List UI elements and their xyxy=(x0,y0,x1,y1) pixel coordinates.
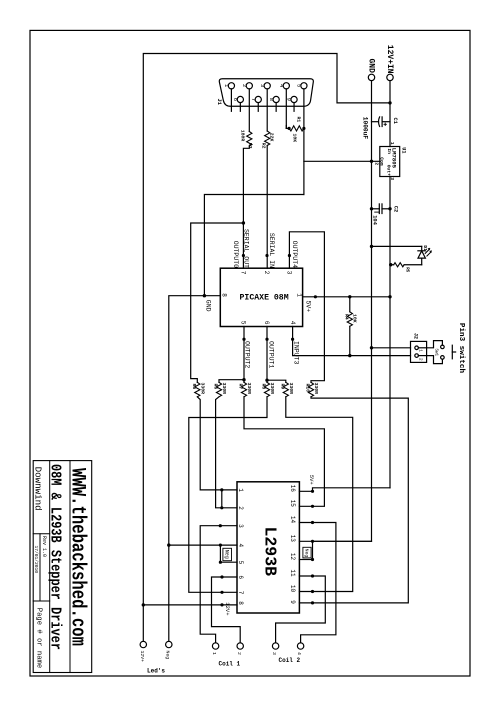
svg-text:5V+: 5V+ xyxy=(308,475,315,485)
resistor R3 180R (DB9 pin2 to serial out) xyxy=(243,132,252,269)
svg-text:9: 9 xyxy=(286,98,293,101)
svg-text:4: 4 xyxy=(289,321,296,325)
node L293B pin2 stub dot xyxy=(220,506,223,509)
J1 pin 2 xyxy=(246,83,252,132)
svg-text:8: 8 xyxy=(220,293,227,297)
wire R7 bottom to L293B pin15 xyxy=(244,397,324,507)
svg-text:R7: R7 xyxy=(238,384,244,390)
resistor R2 22K (DB9 pin3 to serial in) xyxy=(265,131,270,268)
svg-text:8: 8 xyxy=(237,601,244,605)
J1 pin 9 xyxy=(291,96,297,111)
node L293B pin10 stub dot xyxy=(311,590,314,593)
svg-text:Out+: Out+ xyxy=(386,165,392,176)
svg-text:5V+: 5V+ xyxy=(305,301,312,313)
svg-text:C1: C1 xyxy=(392,118,398,124)
terminal Coil1 pin1 xyxy=(212,643,218,649)
svg-text:2: 2 xyxy=(263,271,270,275)
svg-text:J1: J1 xyxy=(216,99,222,105)
wire SERIAL OUT branch to R5 xyxy=(191,223,244,382)
node SERIAL OUT branch junction xyxy=(242,221,245,224)
svg-text:R1: R1 xyxy=(295,117,301,123)
LED D1 xyxy=(372,246,432,264)
IC L293B body xyxy=(237,482,299,613)
resistor R10 330R xyxy=(308,382,313,397)
node L293B pin9 stub dot xyxy=(311,601,314,604)
terminal Neg (Led's) xyxy=(166,641,172,647)
svg-text:8: 8 xyxy=(268,98,275,101)
svg-text:R8: R8 xyxy=(261,384,267,390)
svg-text:13: 13 xyxy=(289,535,296,543)
node GND at U1 Com xyxy=(370,160,373,163)
svg-text:L293B: L293B xyxy=(261,527,280,577)
J1 pin 1 xyxy=(228,83,234,112)
svg-text:Neg: Neg xyxy=(223,550,229,559)
wire L293B pin12 stub xyxy=(299,559,312,561)
node pin5 stub dot xyxy=(242,338,245,341)
svg-text:9: 9 xyxy=(289,600,296,604)
wire R10 bottom to L293B pin9 xyxy=(299,397,408,603)
node 5V+ at 10K top xyxy=(348,295,351,298)
node 12V branch to L293B pin8 xyxy=(142,603,145,606)
svg-text:12V+IN: 12V+IN xyxy=(385,45,394,74)
wire L293B pin4 to Neg rail xyxy=(169,544,237,546)
node L293B pin3 stub dot xyxy=(219,524,222,527)
svg-text:2: 2 xyxy=(237,506,244,510)
svg-text:17/01/2010: 17/01/2010 xyxy=(33,546,39,574)
J1 pin 7 xyxy=(255,96,261,111)
node L293B pin1 stub dot xyxy=(220,488,223,491)
wire 12V+ net: terminal down, left, up, across top, down left side to 12V+ terminal xyxy=(143,54,390,642)
wire R8 bottom to L293B pin7 xyxy=(189,397,267,593)
svg-text:GND: GND xyxy=(367,59,376,74)
svg-text:1: 1 xyxy=(211,652,217,655)
wire PICAXE pin8 stub xyxy=(204,295,220,297)
wire J2 pin1 to Sw1 upper contact xyxy=(427,341,443,348)
label Neg box (left) xyxy=(223,548,232,560)
node L293B pin12 stub dot xyxy=(311,558,314,561)
svg-text:330R: 330R xyxy=(246,383,252,395)
wire OUTPUT1 net pin6 down to R8 xyxy=(266,327,268,383)
svg-text:1: 1 xyxy=(237,488,244,492)
svg-text:GND: GND xyxy=(205,300,212,312)
node Neg rail at L293B pin4 branch xyxy=(167,543,170,546)
svg-text:3: 3 xyxy=(389,177,395,180)
svg-text:12: 12 xyxy=(289,553,296,561)
wire U1 Com to GND and DB9 pin5 net xyxy=(304,160,380,162)
svg-text:330R: 330R xyxy=(313,383,319,395)
svg-text:330R: 330R xyxy=(200,383,206,395)
wire GND from DB9 pin5 down-left to PICAXE pin8 xyxy=(204,195,304,296)
svg-text:22K: 22K xyxy=(269,133,275,142)
svg-text:104: 104 xyxy=(371,215,377,225)
svg-text:11: 11 xyxy=(289,569,296,577)
svg-text:5: 5 xyxy=(237,561,244,565)
svg-text:3: 3 xyxy=(271,652,277,655)
title block outline xyxy=(33,461,91,673)
svg-text:14: 14 xyxy=(289,516,296,524)
resistor R6 330R xyxy=(216,382,221,397)
node INPUT3 at 10K bottom xyxy=(348,354,351,357)
svg-text:6: 6 xyxy=(263,321,270,325)
switch Sw1 xyxy=(441,345,456,359)
node GND at PICAXE pin8 xyxy=(203,294,206,297)
svg-text:J2: J2 xyxy=(413,333,419,339)
svg-text:Coil 1: Coil 1 xyxy=(219,661,241,668)
node L293B pin16 stub dot xyxy=(311,490,314,493)
connector J1 DB9 shell xyxy=(219,79,313,107)
resistor R9 330R xyxy=(283,382,288,397)
wire R6 bottom to L293B pin2 xyxy=(216,397,237,508)
svg-text:D1: D1 xyxy=(422,245,428,251)
label Neg box (right) xyxy=(303,547,311,558)
wire OUTPUT2 branch to R6 xyxy=(219,380,244,383)
resistor R5 330R xyxy=(195,382,200,397)
svg-text:Rev 1.0: Rev 1.0 xyxy=(41,536,47,557)
svg-text:R2: R2 xyxy=(261,143,267,149)
node pin3 stub dot xyxy=(288,254,291,257)
wire OUTPUT1 branch to R9 xyxy=(267,380,286,382)
title block divider rev box bottom xyxy=(33,600,50,602)
svg-text:R4: R4 xyxy=(343,314,349,320)
wire R9 bottom to L293B pin10 xyxy=(286,397,353,592)
title block divider rev box top xyxy=(33,533,50,535)
svg-text:4: 4 xyxy=(296,652,302,655)
svg-text:R6: R6 xyxy=(213,384,219,390)
svg-text:1: 1 xyxy=(296,293,303,297)
svg-text:3: 3 xyxy=(259,84,266,87)
svg-text:U1: U1 xyxy=(401,147,407,153)
node L293B pin11 stub dot xyxy=(311,574,314,577)
resistor R4 10K (pin3 pull) xyxy=(347,297,352,356)
svg-text:3: 3 xyxy=(237,524,244,528)
svg-text:SERIAL OUT: SERIAL OUT xyxy=(243,229,250,268)
wire J2 pin1 to GND xyxy=(372,347,411,349)
svg-text:7: 7 xyxy=(250,98,257,101)
svg-text:1: 1 xyxy=(389,142,395,145)
node R1 right at pin5 line xyxy=(302,127,305,130)
terminal Coil1 pin2 xyxy=(237,643,243,649)
terminal 12V+IN xyxy=(387,74,393,103)
svg-text:330R: 330R xyxy=(221,383,227,395)
svg-text:7: 7 xyxy=(237,591,244,595)
svg-text:SERIAL IN: SERIAL IN xyxy=(268,233,275,268)
svg-text:INPUT3: INPUT3 xyxy=(293,341,300,365)
J1 pin 6 xyxy=(237,96,243,111)
node 12V junction at C1 branch xyxy=(388,101,391,104)
svg-text:2: 2 xyxy=(374,162,380,165)
svg-text:330R: 330R xyxy=(269,383,275,395)
svg-text:Downwind: Downwind xyxy=(33,467,44,511)
svg-text:1: 1 xyxy=(417,349,423,352)
svg-text:10K: 10K xyxy=(292,134,298,143)
svg-text:2: 2 xyxy=(241,84,248,87)
node GND at C2 xyxy=(370,207,373,210)
resistor R11 (LED series) xyxy=(391,263,422,267)
wire L293B pin6 to Coil1 terminal 2 xyxy=(212,577,241,643)
svg-text:Sw1: Sw1 xyxy=(433,349,437,357)
node L293B pin8 stub dot xyxy=(220,603,223,606)
svg-text:12V+: 12V+ xyxy=(139,651,145,663)
node L293B pin14 stub dot xyxy=(311,521,314,524)
node L293B pin6 stub dot xyxy=(220,575,223,578)
wire 5V+ from PICAXE pin1 to +5V rail xyxy=(303,296,390,298)
wire OUTPUT4 net: pin3 up, right, down to R10 xyxy=(289,232,324,382)
J1 pin 8 xyxy=(273,96,279,111)
connector J2 xyxy=(411,341,427,362)
wire Neg bracket pins 4-5 xyxy=(219,545,221,562)
svg-text:OUTPUT4: OUTPUT4 xyxy=(291,241,298,268)
svg-text:1000uF: 1000uF xyxy=(361,117,368,140)
wire INPUT3 net pin4 down right to J2 pin2 xyxy=(293,327,411,356)
terminal Coil2 pin4 xyxy=(297,643,303,649)
svg-text:R5: R5 xyxy=(405,267,409,273)
terminal 12V+ (Led's) xyxy=(140,641,146,647)
resistor R7 330R xyxy=(241,382,246,397)
node pin4 stub dot xyxy=(291,338,294,341)
svg-text:08M & L293B Stepper Driver: 08M & L293B Stepper Driver xyxy=(47,464,64,650)
J1 pin 3 xyxy=(264,83,270,131)
svg-text:Neg: Neg xyxy=(303,549,309,558)
wire 12V to C1 and U1 In xyxy=(389,103,391,147)
node L293B pin7 stub dot xyxy=(220,591,223,594)
wire J2 pin2 to Sw1 lower contact xyxy=(427,356,443,364)
wire L293B pin13 stub to GND xyxy=(299,540,371,542)
node GND at LED branch xyxy=(370,245,373,248)
svg-text:15: 15 xyxy=(289,500,296,508)
regulator U1 LM7805 xyxy=(380,147,400,488)
svg-text:C2: C2 xyxy=(393,206,399,212)
node GND at J2 pin1 branch xyxy=(370,346,373,349)
title block divider col 08M xyxy=(49,461,51,673)
node L293B pin4 stub dot xyxy=(219,544,222,547)
node pin2 stub dot xyxy=(265,254,268,257)
wire L293B pin5 stub xyxy=(220,561,237,563)
node R11 at +5V rail xyxy=(389,263,392,266)
svg-text:2: 2 xyxy=(417,358,423,361)
capacitor C1 xyxy=(372,117,391,127)
node R1 left xyxy=(288,127,291,130)
node 5V+ at +5V rail xyxy=(388,295,391,298)
wire OUTPUT2 net pin5 down to R7 xyxy=(243,327,245,383)
node pin7 stub dot xyxy=(242,254,245,257)
J1 pin 5 xyxy=(301,83,307,195)
svg-text:180R: 180R xyxy=(240,130,246,142)
svg-text:12V+: 12V+ xyxy=(224,602,231,615)
svg-text:R5: R5 xyxy=(191,384,197,390)
terminal GND xyxy=(368,74,374,161)
IC PICAXE 08M body xyxy=(220,268,302,326)
node pin1 stub dot xyxy=(314,295,317,298)
node C2 at +5V rail xyxy=(388,207,391,210)
wire L293B pin11 to Coil2 terminal 3 xyxy=(276,576,326,643)
svg-text:R3: R3 xyxy=(247,143,253,149)
node L293B pin5 stub dot xyxy=(219,561,222,564)
capacitor C2 xyxy=(372,204,391,214)
svg-text:In: In xyxy=(386,148,392,154)
resistor R8 330R xyxy=(264,382,269,397)
title block divider rev/date xyxy=(39,534,41,601)
wire jog pin1 to pin2 xyxy=(221,490,223,508)
wire 12V branch to L293B pin 8 xyxy=(143,604,237,606)
svg-text:Coil 2: Coil 2 xyxy=(279,657,301,664)
svg-text:6: 6 xyxy=(237,575,244,579)
title block divider col WWW xyxy=(69,461,71,673)
node OUTPUT1 branch junction xyxy=(265,379,268,382)
wire L293B pin16 to +5V rail xyxy=(299,488,390,492)
svg-text:5: 5 xyxy=(240,321,247,325)
svg-text:OUTPUT1: OUTPUT1 xyxy=(267,341,274,368)
terminal Coil2 pin3 xyxy=(272,643,278,649)
svg-text:6: 6 xyxy=(232,98,239,101)
node L293B pin15 stub dot xyxy=(311,505,314,508)
node L293B pin13 stub dot xyxy=(311,540,314,543)
wire R5 bottom to L293B pin1 xyxy=(197,397,237,490)
svg-text:4: 4 xyxy=(237,544,244,548)
svg-text:Led's: Led's xyxy=(147,668,165,675)
svg-text:Page # or name: Page # or name xyxy=(34,608,42,668)
svg-text:7: 7 xyxy=(240,271,247,275)
wire GND vertical net xyxy=(313,161,372,541)
svg-text:10: 10 xyxy=(289,585,296,593)
wire L293B pin3 to Coil1 terminal 1 xyxy=(200,526,237,643)
wire Neg bracket pins 13-12 xyxy=(312,541,314,559)
svg-text:5: 5 xyxy=(296,84,303,87)
svg-text:Neg: Neg xyxy=(164,651,170,660)
svg-text:OUTPUT0: OUTPUT0 xyxy=(232,241,239,268)
svg-text:WWW.thebackshed.com: WWW.thebackshed.com xyxy=(65,468,88,646)
wire L293B pin14 to Coil2 terminal 4 xyxy=(299,523,336,643)
svg-text:PICAXE 08M: PICAXE 08M xyxy=(240,294,289,303)
svg-text:330R: 330R xyxy=(288,383,294,395)
svg-text:R9: R9 xyxy=(279,384,285,390)
node pin6 stub dot xyxy=(265,338,268,341)
J1 pin 4 xyxy=(283,83,289,129)
svg-text:2: 2 xyxy=(236,652,242,655)
resistor R1 10K (DB9 pin4 to pin5) xyxy=(286,126,304,132)
svg-text:Pin3 switch: Pin3 switch xyxy=(457,323,465,374)
svg-text:10K: 10K xyxy=(351,314,357,323)
svg-text:16: 16 xyxy=(289,485,296,493)
wire GND to Neg rail xyxy=(169,296,205,642)
node OUTPUT2 branch junction xyxy=(242,378,245,381)
svg-text:R10: R10 xyxy=(305,384,311,393)
svg-text:3: 3 xyxy=(286,271,293,275)
